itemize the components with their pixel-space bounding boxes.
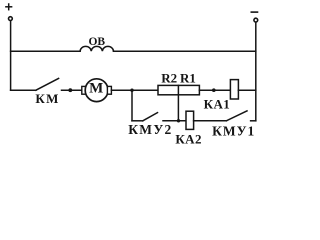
svg-text:КМУ2: КМУ2 (128, 122, 172, 137)
relay coil KA1 (230, 80, 238, 99)
inductor OB (80, 46, 113, 51)
terminal + circle (9, 17, 13, 21)
node after R1 (212, 88, 216, 92)
wire KA1 to right bus (238, 89, 255, 91)
svg-text:КМУ1: КМУ1 (212, 124, 255, 139)
wire field winding left (11, 50, 81, 52)
svg-text:КМ: КМ (35, 91, 60, 106)
motor M1 body (85, 79, 108, 102)
wire right vertical (255, 23, 257, 121)
wire KMU1 stub to right bus (251, 120, 256, 122)
wire KM to motor (62, 89, 82, 91)
node after KM (68, 88, 72, 92)
wire left vertical (10, 21, 12, 90)
svg-text:R1: R1 (180, 70, 196, 85)
minus terminal label (251, 11, 257, 13)
terminal - circle (254, 18, 258, 22)
motor M1 left brush (82, 86, 86, 94)
wire bottom left (132, 120, 143, 122)
wire main left (11, 89, 36, 91)
switch KM blade (36, 78, 59, 90)
wire junction A down (131, 90, 133, 121)
wire KMU2 to KA2 (163, 120, 186, 122)
svg-text:ОВ: ОВ (88, 36, 105, 48)
resistor R2/R1 divider (177, 85, 179, 94)
wire KA2 to KMU1 (194, 120, 227, 122)
motor M1 right brush (107, 86, 111, 94)
wire R tap down (177, 95, 179, 121)
resistor R2 R1 box (158, 85, 199, 94)
svg-text:М: М (89, 81, 103, 97)
relay coil KA2 (186, 111, 194, 129)
node junction B (177, 119, 180, 122)
wire R box to KA1 (199, 89, 230, 91)
node junction A (130, 89, 133, 92)
switch KMU1 blade (226, 111, 247, 121)
svg-text:R2: R2 (161, 70, 177, 85)
wire field winding right (114, 50, 256, 52)
plus terminal label (6, 4, 12, 10)
wire motor to R box (111, 89, 158, 91)
switch KMU2 blade (143, 113, 158, 121)
svg-text:КА1: КА1 (204, 97, 231, 112)
svg-text:КА2: КА2 (175, 131, 202, 146)
